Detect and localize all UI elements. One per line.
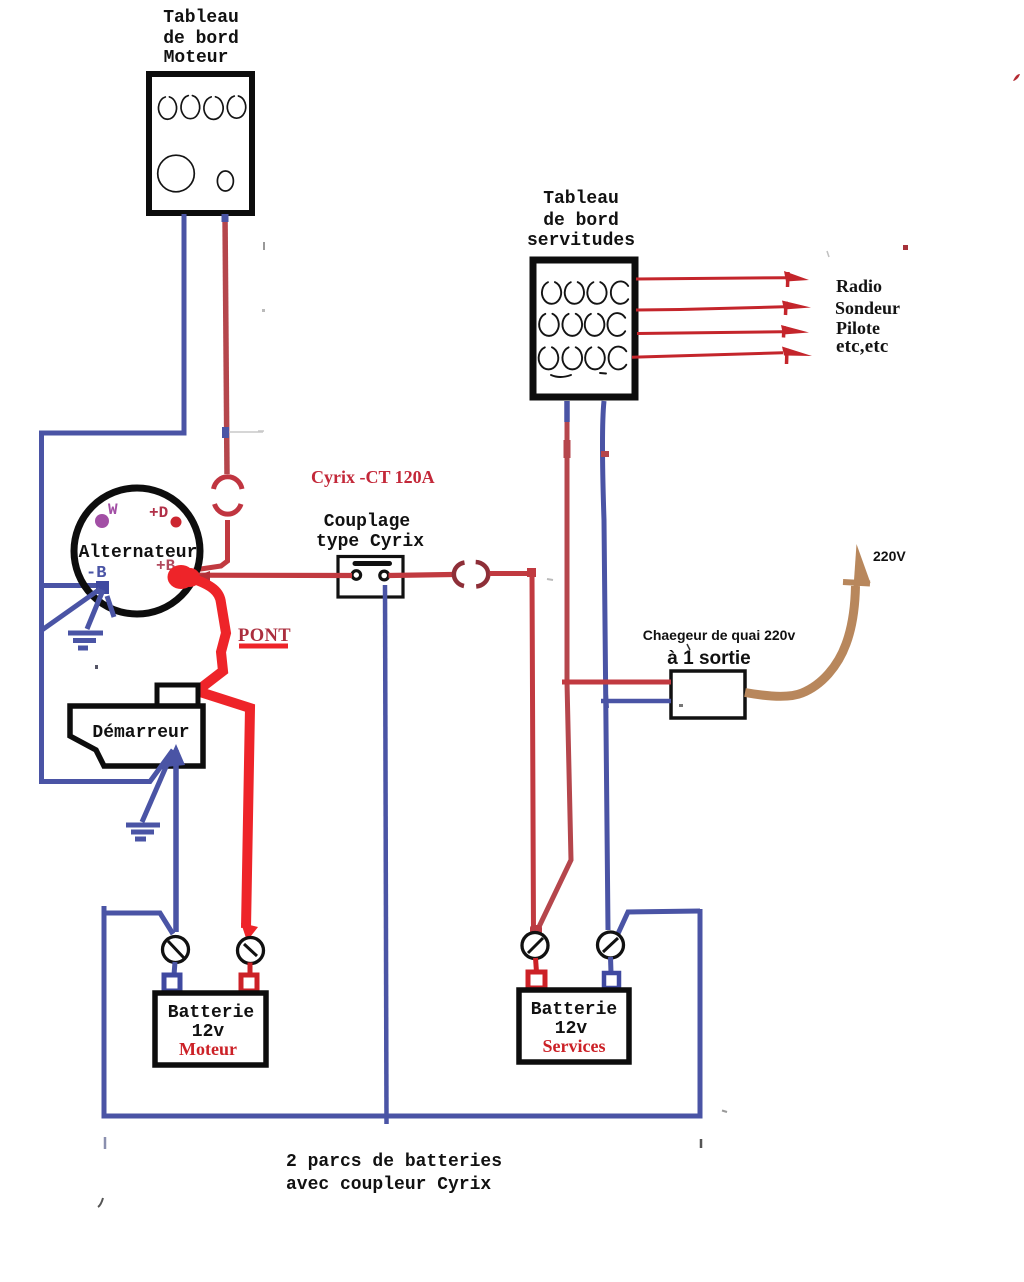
svg-text:PONT: PONT (238, 626, 291, 646)
pont underline (239, 644, 288, 649)
blue blob on red wire (222, 427, 229, 438)
label Tableau de bord Moteur (163, 8, 239, 68)
svg-text:Radio: Radio (836, 276, 882, 296)
demarreur tab (157, 685, 198, 706)
blue arrowhead into demarreur (166, 744, 185, 767)
coupler relay box (338, 557, 403, 598)
services battery positive terminal (536, 958, 537, 972)
wire red connector to +B (194, 520, 228, 570)
svg-text:Démarreur: Démarreur (92, 723, 189, 743)
services battery box (519, 990, 629, 1062)
red blob on servitudes wire (564, 440, 571, 458)
red mark top right (1013, 74, 1020, 81)
arrow to Pilote (637, 325, 809, 338)
svg-text:220V: 220V (873, 548, 906, 564)
svg-text:Couplage: Couplage (324, 512, 410, 532)
svg-text:Cyrix -CT 120A: Cyrix -CT 120A (311, 467, 435, 487)
arrow to Radio (636, 271, 809, 287)
svg-text:Moteur: Moteur (179, 1039, 237, 1059)
svg-text:Batterie: Batterie (168, 1003, 254, 1023)
svg-text:servitudes: servitudes (527, 231, 635, 251)
corner junction blob (527, 568, 536, 577)
brown tick (843, 582, 870, 584)
svg-text:de bord: de bord (543, 211, 619, 231)
red junction blob above positive screw (530, 925, 542, 935)
svg-text:à 1 sortie: à 1 sortie (667, 648, 750, 669)
wire red engine panel to connector (225, 214, 227, 474)
connector vertical quick-disconnect (214, 477, 243, 514)
moteur battery positive screw (238, 938, 264, 964)
labels Radio Sondeur Pilote etc (835, 276, 900, 357)
svg-text:Batterie: Batterie (531, 1000, 617, 1020)
services panel switches (539, 281, 629, 377)
wire blue tee to charger (601, 699, 671, 704)
wire blue horizontal to -B terminal (42, 583, 101, 588)
connector horizontal quick-disconnect (454, 562, 488, 587)
svg-text:W: W (108, 501, 118, 519)
blue stub at tee (606, 694, 607, 708)
svg-text:Pilote: Pilote (836, 318, 880, 338)
wire red servitudes panel down (537, 401, 572, 932)
engine panel gauges (158, 96, 246, 192)
terminal -B blob (96, 581, 109, 594)
svg-text:-B: -B (86, 564, 106, 583)
red dot mid right (903, 245, 908, 250)
terminal W dot (95, 514, 109, 528)
wire red connector to corner and down to services battery (490, 574, 534, 934)
svg-text:Chaegeur de quai 220v: Chaegeur de quai 220v (643, 627, 796, 643)
svg-text:+D: +D (149, 504, 168, 522)
coupler contact left (352, 571, 361, 580)
wire blue demarreur to moteur battery (173, 750, 179, 932)
brown wire 220V (745, 586, 856, 696)
wire blue left loop to demarreur (42, 750, 174, 782)
ground under demarreur (126, 825, 160, 839)
red mark on blue wire (601, 451, 609, 457)
wire blue -B to ground (87, 590, 103, 629)
faint grey line (229, 431, 264, 432)
terminal +B blob (168, 565, 195, 589)
svg-text:Services: Services (543, 1036, 606, 1056)
svg-text:Alternateur: Alternateur (79, 543, 198, 563)
svg-text:avec coupleur Cyrix: avec coupleur Cyrix (286, 1175, 491, 1195)
services battery negative screw (598, 932, 624, 958)
services panel box (533, 260, 635, 397)
coupler contact right (380, 571, 389, 580)
charger box (671, 671, 745, 718)
wire blue coupler to bottom bus (385, 585, 387, 1124)
services battery positive screw (522, 933, 548, 959)
moteur battery negative terminal (174, 962, 175, 975)
svg-text:etc,etc: etc,etc (836, 336, 889, 357)
arrow to etc (632, 347, 812, 365)
small artifacts (104, 1137, 107, 1149)
moteur battery positive terminal (248, 963, 253, 976)
wire blue engine panel to alternator -B (42, 214, 185, 784)
alternator circle (74, 488, 200, 614)
arrowhead into +B (195, 571, 210, 582)
label Couplage type Cyrix (316, 512, 424, 552)
svg-text:Tableau: Tableau (163, 8, 239, 28)
svg-text:2 parcs de batteries: 2 parcs de batteries (286, 1152, 502, 1172)
blue cap on red servitudes wire (564, 401, 570, 422)
arrow to Sondeur (636, 301, 811, 316)
demarreur body (70, 706, 203, 766)
wire red coupler to connector (389, 575, 453, 576)
terminal +D dot (171, 517, 182, 528)
stub blue below -B (107, 596, 114, 617)
label Tableau de bord servitudes (527, 189, 635, 251)
wire blue servitudes panel down to services battery (603, 401, 609, 930)
wire blue negative bus (103, 913, 173, 934)
moteur battery box (155, 993, 266, 1065)
services battery negative terminal (608, 957, 614, 973)
ground under alternator (68, 633, 103, 648)
thick red arrowhead at battery (241, 923, 258, 941)
wire blue services battery to bus (616, 911, 700, 938)
coupler top bar (355, 561, 390, 566)
moteur battery negative screw (163, 937, 189, 963)
wire red +B to coupler (195, 573, 352, 578)
svg-text:de bord: de bord (163, 29, 239, 49)
wire red tee to charger (562, 680, 671, 685)
wire blue -B to left corner diagonal (42, 589, 100, 630)
engine panel box (149, 74, 252, 213)
wire blue ground to demarreur (142, 753, 172, 822)
thick red pont wire (191, 578, 250, 928)
svg-text:Sondeur: Sondeur (835, 298, 900, 318)
svg-text:type Cyrix: type Cyrix (316, 532, 424, 552)
svg-text:Moteur: Moteur (164, 48, 229, 68)
blue cap at top of red panel wire (222, 214, 229, 222)
svg-text:Tableau: Tableau (543, 189, 619, 209)
brown arrowhead (854, 544, 871, 588)
